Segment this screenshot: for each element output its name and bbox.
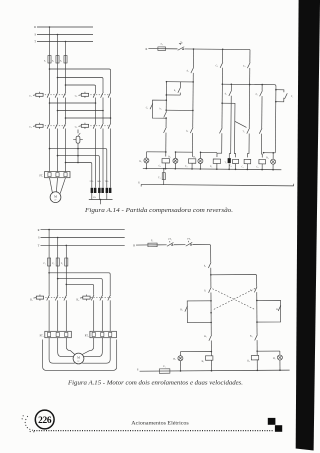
wire colB mid: [192, 73, 194, 128]
overload relay FT2 motor: [85, 331, 117, 337]
node R pilot rail: [133, 244, 147, 247]
svg-text:Figura A.14 - Partida compensa: Figura A.14 - Partida compensadora com r…: [84, 207, 233, 214]
svg-text:R: R: [38, 229, 40, 232]
wire tap feed2: [58, 156, 100, 188]
contact S1: [187, 67, 194, 73]
pushbutton S2 start: [166, 82, 181, 96]
wire left rail2 low: [57, 129, 59, 172]
svg-text:R: R: [34, 26, 36, 29]
label tap 57%: [90, 181, 94, 183]
wire outer wrap: [43, 340, 117, 371]
fuse F3: [60, 55, 67, 64]
svg-text:F₁: F₁: [163, 365, 165, 368]
svg-text:PT₂: PT₂: [85, 335, 89, 338]
svg-text:K₂: K₂: [250, 335, 253, 338]
fuse F2: [52, 55, 59, 64]
lamp H2: [168, 155, 178, 163]
wire colD upper: [249, 50, 251, 63]
wire colG rail: [274, 88, 276, 153]
coil C4: [230, 159, 239, 167]
wire pilot b: [174, 244, 186, 246]
contactor C2 contact pole2: [101, 92, 104, 98]
svg-text:C₂: C₂: [185, 165, 188, 168]
contact C1 aux: [160, 107, 167, 117]
lamp H1: [139, 158, 149, 163]
wire left rail3 low: [65, 129, 67, 172]
wire M2 drop: [57, 238, 59, 258]
wire colF upper: [261, 85, 263, 91]
svg-text:226: 226: [38, 416, 52, 426]
wire colB upper: [192, 49, 194, 67]
svg-text:C₃: C₃: [29, 125, 32, 128]
wire lamp link right: [263, 152, 276, 154]
node R control rail: [145, 48, 157, 51]
svg-text:T₁: T₁: [291, 95, 293, 98]
contact colC top: [216, 62, 223, 68]
contact S1 start: [204, 287, 211, 293]
wire right rail3 low: [110, 129, 112, 188]
label tap 78%: [105, 181, 109, 183]
contactor C5 operator: [73, 130, 83, 164]
wire K2 pole3 down: [109, 300, 111, 331]
svg-text:M: M: [77, 356, 80, 360]
wire timer loop: [276, 90, 284, 102]
wire M3 drop: [65, 245, 67, 257]
wire L1 drop: [49, 27, 51, 55]
svg-text:H₃: H₃: [193, 156, 196, 159]
wire L2 to contacts: [57, 64, 59, 93]
svg-text:T₁: T₁: [242, 130, 244, 133]
fuse F3 motor: [61, 258, 68, 267]
svg-text:K₁: K₁: [30, 299, 33, 302]
svg-text:S₀: S₀: [204, 265, 206, 268]
contactor C3 contact pole3: [63, 123, 66, 129]
contactor C2 operator: [75, 92, 89, 98]
svg-text:F₃: F₃: [61, 262, 63, 265]
contactor C2 linkage: [90, 94, 109, 96]
svg-text:F₄: F₄: [158, 176, 160, 179]
svg-text:R: R: [145, 48, 147, 51]
svg-text:b₁: b₁: [160, 107, 162, 110]
svg-text:d₁: d₁: [225, 92, 227, 95]
caption figura A.15: [67, 380, 243, 386]
wire branch phase3 to right bank: [66, 85, 96, 92]
wire w4 lead: [82, 338, 93, 355]
wire railR b: [256, 292, 258, 335]
node T phase bus 2: [38, 245, 125, 248]
fuse F1: [44, 55, 51, 64]
contactor C1 operator: [29, 92, 43, 98]
svg-text:78%: 78%: [105, 181, 109, 183]
contactor C3 linkage: [45, 125, 67, 127]
wire w3 lead: [49, 338, 75, 364]
wire cross link1: [50, 102, 97, 104]
svg-text:57%: 57%: [90, 181, 94, 183]
wire colE to timer: [229, 96, 231, 158]
contactor K2 pole2: [100, 295, 103, 301]
wire K2 pole1 down: [93, 300, 95, 331]
node N control bus: [143, 168, 281, 169]
wire pilot a: [158, 244, 167, 246]
svg-text:F₁: F₁: [44, 60, 46, 63]
page number badge: [35, 410, 54, 429]
wire motor lead2: [56, 178, 57, 192]
svg-text:F₁: F₁: [44, 262, 46, 265]
contactor C4 contact pole3: [108, 123, 111, 129]
contactor C2 contact pole3: [108, 92, 111, 98]
wire right rail2 mid: [102, 98, 104, 124]
wire K2 pole2 down: [101, 300, 103, 331]
contactor C4 operator: [75, 123, 89, 129]
svg-text:FT₁: FT₁: [168, 239, 171, 241]
svg-text:H₂: H₂: [168, 155, 171, 158]
wire L1 to contacts: [49, 64, 51, 93]
contact colC lower: [219, 128, 222, 134]
node T phase bus: [34, 41, 93, 44]
contactor K1 linkage: [45, 297, 67, 299]
contact colD top: [243, 62, 250, 68]
wire left rail2 mid: [57, 98, 59, 124]
wire link H2: [222, 103, 247, 157]
fuse F1 pilot: [159, 365, 170, 373]
wire interlock dash 2: [213, 288, 256, 309]
contactor K2 operator: [77, 295, 91, 302]
contact T1 loop: [285, 93, 294, 99]
wire link A-B mid: [165, 109, 193, 111]
coil K1: [202, 356, 213, 363]
wire lamp3 link: [200, 151, 217, 158]
node R phase bus: [34, 26, 93, 29]
svg-text:3~: 3~: [77, 360, 80, 363]
wire M1 to K1: [48, 267, 50, 295]
fuse F0 control: [157, 43, 166, 51]
wire lamp2 link: [175, 151, 193, 158]
svg-text:T: T: [38, 245, 40, 248]
wire coil returns: [146, 163, 274, 171]
wire colA upper: [165, 82, 167, 112]
svg-text:PT₁: PT₁: [40, 335, 44, 338]
svg-text:S₀: S₀: [181, 41, 183, 44]
svg-text:S: S: [137, 368, 139, 371]
coil C6: [256, 159, 265, 168]
svg-text:T₁: T₁: [224, 161, 226, 164]
svg-text:K₂: K₂: [276, 308, 279, 311]
wire seal loop K2: [257, 300, 281, 322]
coil C3: [210, 159, 221, 168]
wire colF mid: [261, 96, 263, 128]
svg-text:F₃: F₃: [60, 60, 62, 63]
svg-text:F₂: F₂: [52, 60, 54, 63]
autotransformer tap block3: [106, 188, 112, 193]
wire colB to coil: [191, 133, 193, 157]
svg-text:S: S: [138, 181, 140, 184]
contactor C4 contact pole2: [101, 123, 104, 129]
wire branch phase2 to right bank: [58, 78, 104, 93]
wire top bus a: [166, 48, 177, 50]
wire left rail1 low: [49, 129, 51, 172]
contactor K1 pole3: [64, 295, 67, 301]
svg-text:F₀: F₀: [161, 43, 163, 46]
wire colD to coil: [247, 133, 249, 157]
wire colC to coil: [217, 133, 222, 157]
contactor C1 contact pole2: [55, 92, 58, 98]
wire branch phase1 to right bank: [50, 69, 111, 92]
wire lampH2 branch: [257, 351, 280, 355]
wire cross link3: [66, 117, 111, 119]
svg-text:S: S: [34, 34, 36, 37]
svg-text:FT₂: FT₂: [187, 239, 191, 241]
contact colF: [256, 91, 263, 97]
overload relay FT1: [39, 172, 70, 178]
wire colC mid: [221, 68, 223, 128]
wire top bus b: [184, 48, 250, 50]
contact K1 seal: [180, 306, 187, 312]
wire pilot c: [192, 245, 210, 263]
wire left rail3 mid: [65, 98, 67, 124]
contactor C3 operator: [29, 123, 43, 129]
contactor C4 contact pole1: [93, 123, 96, 129]
fuse F4 drop: [158, 168, 165, 185]
node S phase bus: [34, 34, 93, 37]
svg-text:C₂: C₂: [75, 94, 78, 97]
svg-text:0%: 0%: [93, 197, 96, 199]
wire M3 to K1: [66, 267, 68, 295]
decorative dot arc: [22, 415, 35, 432]
svg-text:T: T: [34, 41, 36, 44]
svg-text:C₄: C₄: [230, 165, 232, 167]
wire railL c: [210, 340, 212, 355]
wire left rail1 mid: [49, 98, 51, 124]
overload relay FT1 motor: [40, 331, 72, 337]
lamp H1 pilot: [173, 356, 183, 361]
wire colF to coil: [261, 134, 262, 158]
svg-text:b₂: b₂: [186, 130, 188, 133]
contact S0 stop: [204, 262, 211, 268]
svg-text:K₁: K₁: [204, 335, 207, 338]
wire tap bottoms: [92, 193, 107, 200]
contact colE: [225, 90, 232, 96]
svg-text:H₁: H₁: [173, 358, 176, 361]
wire cross link2: [58, 110, 104, 112]
caption figura A.14: [84, 207, 233, 214]
footer running title: [131, 422, 189, 427]
wire railL a: [210, 268, 212, 287]
contactor C1 contact pole1: [47, 92, 50, 98]
svg-text:Acionamentos Elétricos: Acionamentos Elétricos: [131, 422, 189, 427]
contactor C3 contact pole2: [55, 123, 58, 129]
wire colA to coil: [165, 133, 167, 157]
contactor K2 pole1: [91, 295, 94, 301]
lamp H2 pilot: [273, 355, 283, 360]
wire M2 to K1: [57, 267, 59, 295]
svg-text:64%: 64%: [97, 181, 101, 183]
wire w2 lead: [58, 338, 73, 357]
wire lampH1 branch: [180, 352, 211, 356]
svg-text:C₆: C₆: [256, 166, 258, 168]
footer ornament square 2: [275, 425, 282, 432]
svg-text:K₁: K₁: [180, 308, 183, 311]
svg-text:F₀: F₀: [151, 239, 153, 242]
contact K2 seal: [276, 305, 281, 311]
wire branch to K2 pole3: [49, 273, 110, 295]
wire branch to K2 pole2: [58, 279, 103, 295]
timer relay T1 coil: [224, 158, 230, 164]
contact colA lower: [164, 127, 167, 133]
contactor C3 contact pole1: [47, 123, 50, 129]
contact colD lower: [242, 128, 249, 134]
wire colE upper: [230, 84, 232, 90]
node 0% common: [89, 197, 113, 204]
contactor C1 linkage: [45, 94, 67, 96]
footer ornament square 1: [268, 418, 276, 425]
lamp H4: [266, 156, 276, 164]
contact S2 start: [250, 287, 257, 293]
motor M2 two-winding: [73, 353, 84, 364]
wire seal loop K1: [187, 301, 211, 323]
contactor C2 contact pole1: [93, 92, 96, 98]
wire K1 pole2 down: [57, 300, 59, 331]
svg-text:C₁: C₁: [159, 164, 161, 167]
contactor K2 linkage: [91, 297, 111, 299]
coil C1: [159, 158, 170, 167]
node S return line: [138, 181, 294, 187]
label tap 64%: [97, 181, 101, 183]
wire L2 drop: [57, 35, 59, 56]
contact K2 aux: [250, 335, 257, 341]
svg-text:C₁: C₁: [146, 106, 148, 109]
binding strip: [296, 0, 320, 451]
wire seal loop C1: [152, 100, 166, 118]
contact K1 aux: [204, 335, 211, 341]
svg-text:d₂: d₂: [256, 93, 258, 96]
svg-text:S₁: S₁: [187, 70, 189, 73]
coil C5: [242, 159, 251, 168]
wire right rail2 low: [102, 129, 104, 188]
svg-text:H₄: H₄: [266, 156, 269, 159]
wire interlock bus H1: [222, 83, 276, 87]
svg-text:3~: 3~: [54, 199, 57, 202]
wire pilot returns: [180, 360, 281, 372]
contactor K1 pole1: [47, 295, 50, 301]
wire w6 lead: [82, 338, 110, 364]
wire motor lead3: [60, 178, 65, 194]
wire colD mid: [248, 68, 251, 128]
autotransformer tap block2: [98, 188, 104, 193]
wire tap feed3: [66, 163, 92, 188]
wire right rail1 low: [95, 129, 97, 188]
wire L3 to contacts: [65, 64, 67, 93]
wire branch to K2 pole1: [66, 284, 93, 294]
svg-text:R: R: [133, 244, 135, 247]
wire K1 pole3 down: [65, 300, 67, 331]
svg-text:S₂: S₂: [174, 89, 176, 92]
wire railR c: [256, 340, 258, 355]
wire railL b: [210, 292, 212, 335]
wire interlock dash 1: [212, 288, 255, 309]
wire K1 pole1 down: [48, 300, 50, 331]
fuse F2 motor: [52, 258, 59, 267]
svg-text:H₂: H₂: [273, 357, 276, 360]
motor M1 three-phase: [50, 192, 61, 203]
node R phase bus 2: [38, 229, 125, 232]
contactor K1 operator: [30, 295, 43, 302]
wire tap feed1: [50, 149, 107, 188]
wire right rail1 mid: [95, 98, 97, 124]
contactor C4 linkage: [90, 125, 109, 127]
coil K2: [247, 355, 258, 362]
svg-text:K₂: K₂: [77, 299, 80, 302]
wire w1 lead: [66, 338, 74, 355]
lamp H3: [193, 156, 203, 164]
footer dotted rule: [34, 430, 274, 432]
svg-text:C₄: C₄: [243, 65, 246, 68]
contactor K2 pole3: [108, 295, 111, 301]
svg-text:FT₁: FT₁: [39, 175, 43, 178]
wire colC upper: [222, 49, 224, 62]
node S pilot return: [137, 367, 290, 371]
svg-text:K₁: K₁: [202, 360, 205, 363]
svg-text:C₃: C₃: [210, 165, 213, 168]
node S phase bus 2: [38, 237, 125, 240]
autotransformer tap block1: [91, 188, 97, 193]
wire M1 drop: [48, 230, 50, 258]
svg-text:C₅: C₅: [242, 166, 244, 168]
fuse F1 motor: [44, 258, 51, 267]
svg-text:Figura A.15 - Motor com dois e: Figura A.15 - Motor com dois enrolamento…: [67, 380, 243, 386]
wire lamp1 link: [146, 152, 165, 158]
pushbutton S0: [178, 41, 185, 50]
fuse F0 pilot: [147, 239, 157, 247]
contact C1 seal: [146, 103, 153, 109]
wire lamp4 stub: [272, 152, 274, 159]
svg-text:C₃: C₃: [216, 64, 219, 67]
wire L3 drop: [65, 42, 67, 56]
svg-text:H₁: H₁: [139, 160, 142, 163]
wire link A-B top: [166, 81, 194, 83]
wire crossover top: [211, 274, 257, 287]
svg-text:K₂: K₂: [247, 360, 250, 363]
wire motor lead1: [50, 178, 53, 194]
svg-text:M: M: [54, 194, 57, 198]
wire w5 lead: [84, 338, 102, 357]
contact colB lower: [186, 127, 193, 133]
svg-text:C₁: C₁: [29, 94, 32, 97]
svg-text:S: S: [38, 237, 40, 240]
svg-text:C₄: C₄: [75, 125, 78, 128]
contactor K1 pole2: [55, 295, 58, 301]
wire right rail3 mid: [110, 98, 112, 124]
contact FT2 nc: [186, 239, 193, 247]
contact FT1 nc: [167, 239, 174, 247]
coil C2: [185, 159, 196, 168]
svg-text:S₁: S₁: [204, 289, 206, 292]
contact colF lower: [259, 128, 262, 134]
contactor C1 contact pole3: [63, 92, 66, 98]
svg-text:F₂: F₂: [52, 262, 54, 265]
wire colA mid: [165, 117, 167, 127]
